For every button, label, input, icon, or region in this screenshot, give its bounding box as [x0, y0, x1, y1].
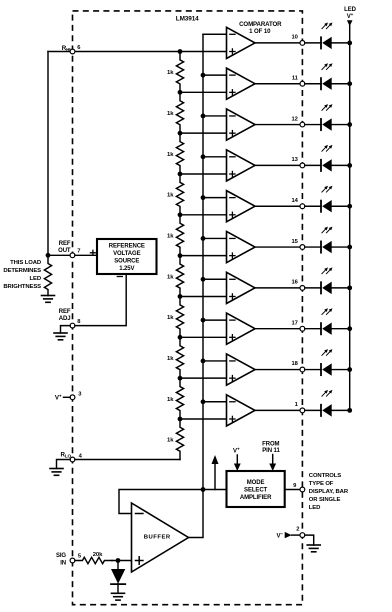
wire R_HI to REF OUT node: [47, 52, 49, 256]
svg-text:1k: 1k: [167, 111, 174, 117]
svg-text:PIN 11: PIN 11: [262, 448, 280, 454]
pin 18 circle: [300, 367, 305, 372]
label REF ADJ: [59, 309, 71, 322]
pin 12 circle: [300, 122, 305, 127]
LED D5: [305, 200, 350, 212]
LED V+ rail with top arrow: [347, 20, 353, 410]
op-amp comparator C3: [180, 109, 300, 140]
LED D7 light arrows: [322, 267, 333, 273]
svg-text:1k: 1k: [167, 397, 174, 403]
svg-text:SIG: SIG: [56, 553, 66, 559]
ground R_LO: [50, 469, 63, 476]
svg-text:1k: 1k: [167, 70, 174, 76]
pin 9 circle: [300, 487, 305, 492]
label COMPARATOR 1 OF 10: [239, 21, 282, 35]
svg-text:ADJ: ADJ: [59, 316, 71, 322]
pin 2 circle: [300, 533, 305, 538]
label V+ pin 3: [55, 393, 62, 401]
signal rail wire: [189, 34, 227, 537]
svg-text:1k: 1k: [167, 274, 174, 280]
label V+ mode: [233, 446, 240, 454]
LED D2 light arrows: [322, 63, 333, 69]
svg-text:COMPARATOR: COMPARATOR: [239, 21, 282, 28]
svg-text:OUT: OUT: [58, 248, 71, 254]
wire pin 2 to ground: [305, 535, 314, 545]
op-amp comparator C8: [180, 313, 300, 344]
rail junction dot 3: [347, 122, 352, 127]
rail junction dot 1: [347, 41, 352, 46]
label pin 13: [292, 157, 299, 163]
protection diode D11: [111, 561, 125, 594]
label SIG IN: [56, 553, 66, 567]
svg-text:DISPLAY, BAR: DISPLAY, BAR: [309, 489, 349, 495]
LED D9 light arrows: [322, 349, 333, 355]
svg-text:DETERMINES: DETERMINES: [3, 268, 41, 274]
rail junction dot 9: [347, 367, 352, 372]
LED D1 light arrows: [322, 22, 333, 28]
rail junction dot 5: [347, 204, 352, 209]
label LED V+: [344, 7, 356, 20]
svg-text:1k: 1k: [167, 315, 174, 321]
op-amp comparator C10: [180, 395, 300, 426]
pin 13 circle: [300, 163, 305, 168]
pin 14 circle: [300, 204, 305, 209]
svg-text:7: 7: [77, 248, 80, 254]
ground diode: [112, 593, 125, 600]
resistor R9 1k: [176, 378, 183, 419]
label FROM PIN 11: [262, 442, 280, 455]
wire pin 4 to ladder bottom: [75, 459, 180, 461]
svg-text:1 OF 10: 1 OF 10: [249, 28, 271, 35]
rail junction dot 4: [347, 163, 352, 168]
svg-text:REF: REF: [59, 309, 71, 315]
resistor R1 1k: [176, 52, 183, 93]
pin 11 circle: [300, 81, 305, 86]
svg-text:1k: 1k: [167, 152, 174, 158]
label pin 4: [79, 454, 83, 460]
svg-text:11: 11: [292, 75, 299, 81]
IC boundary dashed box LM3914: [73, 11, 303, 605]
node REF OUT junction: [46, 253, 51, 258]
svg-text:REF: REF: [59, 241, 71, 247]
signal rail junction dots: [201, 73, 206, 492]
svg-text:1k: 1k: [167, 356, 174, 362]
LED D6 light arrows: [322, 227, 333, 233]
wire pin 8 to ground: [61, 326, 71, 333]
svg-text:OR SINGLE: OR SINGLE: [309, 497, 341, 503]
wire stub pin 3: [64, 396, 71, 398]
load resistor (this load determines LED brightness): [44, 258, 51, 296]
pin 6 R_HI stub and wire to ladder: [48, 51, 180, 53]
svg-text:15: 15: [292, 239, 299, 245]
svg-text:10: 10: [292, 35, 298, 41]
resistor R3 1k: [176, 133, 183, 174]
label LM3914: [176, 15, 199, 22]
svg-text:18: 18: [292, 361, 299, 367]
node diode junction: [116, 558, 121, 563]
pin 8 circle REF ADJ: [70, 323, 75, 328]
label pin 16: [292, 280, 299, 286]
rail junction dot 7: [347, 285, 352, 290]
LED D7: [305, 282, 350, 294]
svg-text:12: 12: [292, 116, 298, 122]
resistor R6 1k: [176, 256, 183, 297]
op-amp comparator C5: [180, 191, 300, 222]
op-amp comparator C7: [180, 272, 300, 303]
FROM PIN 11 down arrow: [269, 455, 276, 472]
pin 1 circle: [300, 408, 305, 413]
svg-text:14: 14: [292, 198, 299, 204]
label pin 15: [292, 239, 299, 245]
label 20k: [93, 552, 103, 558]
wire 20k to buffer +: [112, 560, 132, 562]
svg-text:13: 13: [292, 157, 299, 163]
rail junction dot 10: [347, 408, 352, 413]
resistor R5 1k: [176, 215, 183, 256]
LED D6: [305, 241, 350, 253]
wire pin 4 to ground: [57, 460, 71, 469]
LED D8 light arrows: [322, 308, 333, 314]
resistor R2 1k: [176, 92, 183, 133]
svg-text:17: 17: [292, 320, 298, 326]
label pin 7: [77, 248, 80, 254]
label pin 18: [292, 361, 299, 367]
wire pin 7 to reference box +: [75, 254, 97, 256]
label pin 6: [77, 45, 81, 51]
label RHI: [62, 45, 71, 52]
svg-text:LED: LED: [30, 276, 41, 282]
LED D1: [305, 37, 350, 49]
label pin 11: [292, 75, 299, 81]
LED D4 light arrows: [322, 145, 333, 151]
mode box text: [240, 480, 272, 501]
label pin 12: [292, 116, 298, 122]
svg-text:FROM: FROM: [262, 442, 279, 448]
pin 10 circle: [300, 41, 305, 46]
rail junction dot 6: [347, 245, 352, 250]
label + on reference box: [90, 250, 95, 255]
V+ down arrow: [234, 455, 241, 471]
op-amp comparator C6: [180, 231, 300, 262]
label - below reference box: [117, 276, 122, 278]
pin 4 circle R_LO: [70, 457, 75, 462]
svg-text:2: 2: [296, 527, 299, 533]
label pin 10: [292, 35, 298, 41]
label pin 17: [292, 320, 298, 326]
svg-text:SELECT: SELECT: [244, 488, 268, 494]
svg-text:16: 16: [292, 280, 299, 286]
svg-text:IN: IN: [60, 561, 66, 567]
up arrow to comparator chain: [212, 455, 219, 490]
svg-text:20k: 20k: [93, 552, 103, 558]
buffer input feedback wire: [119, 490, 227, 514]
svg-text:1k: 1k: [167, 233, 174, 239]
label pin 14: [292, 198, 299, 204]
svg-text:LED: LED: [309, 505, 320, 511]
pin 6 circle: [70, 49, 75, 54]
svg-text:SOURCE: SOURCE: [114, 259, 139, 265]
label pin 3: [78, 392, 82, 398]
svg-text:MODE: MODE: [247, 480, 265, 486]
LED D10 light arrows: [322, 390, 333, 396]
pin 17 circle: [300, 326, 305, 331]
LED D3 light arrows: [322, 104, 333, 110]
op-amp comparator C1: [180, 27, 300, 58]
op-amp comparator C2: [180, 68, 300, 99]
LED D5 light arrows: [322, 186, 333, 192]
label RLO: [60, 451, 71, 458]
V- arrow into pin 2: [285, 532, 300, 538]
ground REF ADJ: [54, 333, 67, 340]
reference voltage source box: [97, 239, 157, 274]
LED D9: [305, 363, 350, 375]
mode select amplifier box: [227, 471, 285, 507]
ground pin 2: [307, 545, 320, 552]
svg-text:VOLTAGE: VOLTAGE: [113, 251, 141, 257]
op-amp comparator C9: [180, 354, 300, 385]
svg-text:1.25V: 1.25V: [119, 266, 134, 272]
label CONTROLS TYPE OF DISPLAY BAR OR SINGLE LED: [309, 473, 349, 511]
LED D3: [305, 118, 350, 130]
svg-text:BUFFER: BUFFER: [144, 535, 171, 541]
wire reference box to pin 8: [75, 274, 126, 326]
label V- pin 2: [277, 531, 284, 539]
resistor 20k: [75, 557, 112, 563]
LED D4: [305, 159, 350, 171]
pin 15 circle: [300, 245, 305, 250]
label THIS LOAD DETERMINES LED BRIGHTNESS: [3, 260, 41, 290]
svg-text:AMPLIFIER: AMPLIFIER: [240, 495, 272, 501]
label BUFFER: [144, 535, 171, 541]
reference box text: [109, 243, 145, 272]
labels 1k: [167, 70, 174, 443]
label pin 1: [295, 402, 299, 408]
svg-text:REFERENCE: REFERENCE: [109, 243, 145, 249]
pin 5 circle SIG IN: [70, 558, 75, 563]
LED D8: [305, 323, 350, 335]
resistor R7 1k: [176, 296, 183, 337]
label pin 8: [77, 319, 81, 325]
svg-text:CONTROLS: CONTROLS: [309, 473, 341, 479]
resistor R4 1k: [176, 174, 183, 215]
resistor R10 1k: [176, 419, 183, 460]
LED D2: [305, 78, 350, 90]
rail junction dot 8: [347, 326, 352, 331]
op-amp buffer U2: [132, 503, 189, 572]
label pin 2: [296, 527, 299, 533]
ladder tap junction dots: [178, 49, 183, 421]
svg-text:BRIGHTNESS: BRIGHTNESS: [3, 284, 41, 290]
op-amp comparator C4: [180, 150, 300, 181]
pin 16 circle: [300, 285, 305, 290]
resistor R8 1k: [176, 337, 183, 378]
label pin 9: [293, 483, 297, 489]
svg-text:TYPE OF: TYPE OF: [309, 481, 334, 487]
wire mode box to pin 9: [285, 489, 300, 491]
label pin 5: [78, 554, 82, 560]
svg-text:1k: 1k: [167, 193, 174, 199]
label REF OUT: [58, 241, 71, 254]
ground load: [42, 296, 55, 303]
wire node to pin 7: [48, 254, 70, 256]
svg-text:1k: 1k: [167, 437, 174, 443]
rail junction dot 2: [347, 81, 352, 86]
svg-text:THIS LOAD: THIS LOAD: [10, 260, 41, 266]
pin 3 circle V+: [70, 395, 75, 400]
LED D10: [305, 404, 350, 416]
pin 7 circle REF OUT: [70, 253, 75, 258]
svg-text:LM3914: LM3914: [176, 15, 199, 22]
